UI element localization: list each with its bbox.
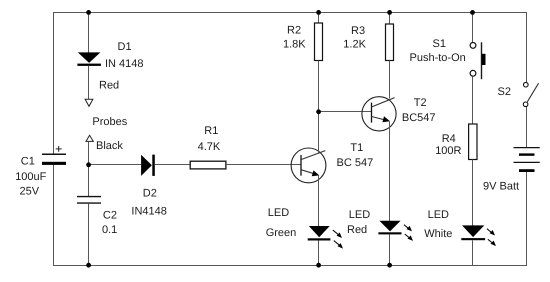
svg-text:S1: S1 [433,38,446,50]
red probe terminal [85,80,119,107]
svg-text:4.7K: 4.7K [198,141,221,153]
wire right border upper [526,12,528,83]
node dot top D1 [86,10,91,15]
node dot top R2 [316,10,321,15]
svg-text:1.8K: 1.8K [283,39,306,51]
node dot bottom C2 [86,263,91,268]
wire R4 to LED white [472,160,474,226]
transistor T1 [291,142,373,183]
svg-text:D2: D2 [143,188,157,200]
node dot black probe [86,162,91,167]
switch S2 [498,82,539,106]
svg-text:T1: T1 [350,142,363,154]
battery B1 9V [483,148,540,193]
svg-text:Green: Green [266,227,297,239]
wire T2 emitter down [389,121,391,221]
wire node A to T1 collector [318,112,320,154]
svg-text:Red: Red [99,80,119,92]
wire R3 to T2 collector [389,61,391,99]
resistor R3 [343,24,393,61]
svg-text:BC 547: BC 547 [337,157,374,169]
wire top rail [53,12,527,14]
wire D1 to red probe [88,66,90,99]
svg-text:R4: R4 [442,133,456,145]
svg-text:0.1: 0.1 [102,224,117,236]
LED red [347,209,413,241]
diode D2 [131,155,166,218]
svg-text:C1: C1 [21,155,35,167]
wire LED red to bottom rail [389,234,391,265]
svg-text:100R: 100R [435,145,461,157]
resistor R1 [190,125,226,169]
wire S1 top stub [472,12,474,42]
wire left border lower [53,165,55,266]
svg-text:S2: S2 [498,86,511,98]
svg-text:LED: LED [428,209,449,221]
wire left border upper [53,12,55,154]
wire right border mid [526,107,528,147]
switch S1 push-to-on [410,38,486,79]
node dot top S1 [470,10,475,15]
svg-text:D1: D1 [118,41,132,53]
wire C2 to bottom rail [88,204,90,266]
diode D1 [77,41,143,70]
svg-text:BC547: BC547 [402,112,436,124]
wire R1 to T1 base [226,164,301,166]
resistor R4 [435,124,477,160]
node dot top R3 [387,10,392,15]
LED white [424,209,496,246]
svg-text:Probes: Probes [92,116,127,128]
wire R2 top stub [318,12,320,23]
wire LED green to bottom rail [318,241,320,266]
wire black probe down to node [88,142,90,165]
svg-text:IN 4148: IN 4148 [105,58,144,70]
wire T1 emitter down [318,176,320,227]
svg-text:Push-to-On: Push-to-On [410,52,466,64]
capacitor C1 [15,146,66,197]
black probe terminal [86,135,123,152]
node dot T2 base branch [316,109,321,114]
wire R3 top stub [389,12,391,24]
wire D2 to R1 [155,164,191,166]
wire R2 to node A [318,61,320,113]
wire D1 branch top [88,12,90,53]
svg-text:C2: C2 [103,209,117,221]
wire S1 to R4 [472,76,474,124]
wire right border lower [526,172,528,267]
node dot bottom LED red [387,263,392,268]
transistor T2 [362,97,436,131]
svg-text:R3: R3 [351,25,365,37]
node dot bottom LED green [316,263,321,268]
svg-text:White: White [424,228,452,240]
wire node to D2 [89,164,142,166]
svg-text:100uF: 100uF [15,171,46,183]
svg-text:T2: T2 [414,97,427,109]
svg-text:1.2K: 1.2K [343,39,366,51]
resistor R2 [283,23,323,61]
svg-text:Black: Black [96,140,123,152]
svg-text:IN4148: IN4148 [131,206,166,218]
capacitor C2 [77,197,117,236]
svg-text:25V: 25V [20,185,40,197]
LED green [266,207,343,249]
wire node to C2 [88,165,90,197]
svg-text:LED: LED [349,209,370,221]
wire LED white to bottom rail [472,240,474,265]
wire bottom rail [53,265,527,267]
svg-text:9V Batt: 9V Batt [483,181,519,193]
svg-text:R1: R1 [204,125,218,137]
svg-text:R2: R2 [287,25,301,37]
svg-text:LED: LED [268,207,289,219]
svg-text:Red: Red [347,224,367,236]
wire node A to T2 base [319,111,372,113]
